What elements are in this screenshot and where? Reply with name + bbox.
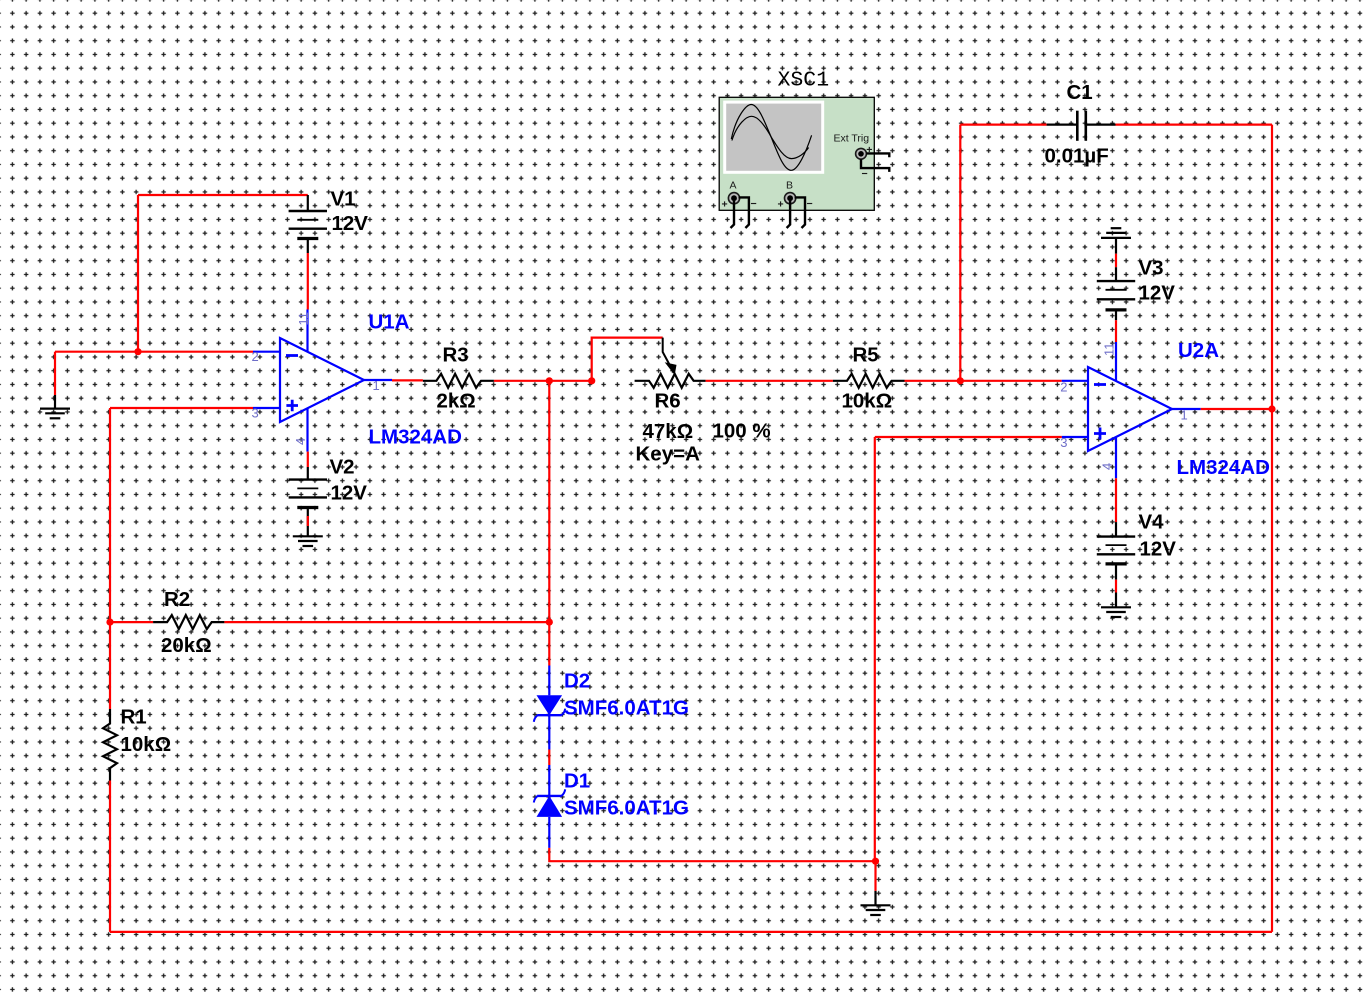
potentiometer R6 wiper arm: [663, 338, 671, 367]
wire right rail vertical: [1271, 125, 1273, 932]
svg-text:12V: 12V: [1139, 282, 1176, 305]
svg-text:+: +: [722, 199, 728, 211]
wire C1 to right rail: [1116, 123, 1273, 125]
svg-text:R6: R6: [655, 390, 681, 413]
svg-text:SMF6.0AT1G: SMF6.0AT1G: [564, 797, 689, 820]
resistor R1: [109, 622, 111, 709]
wire R3 to node: [494, 380, 592, 382]
svg-text:11: 11: [1101, 343, 1116, 357]
svg-text:B: B: [786, 180, 793, 192]
svg-text:12V: 12V: [331, 482, 368, 505]
svg-text:R5: R5: [853, 343, 879, 366]
wire D1 bottom: [549, 848, 875, 861]
svg-text:12V: 12V: [332, 212, 369, 235]
svg-text:11: 11: [296, 312, 311, 326]
battery V2: [289, 467, 327, 536]
junction output node: [1268, 405, 1275, 412]
wire R6 to R5: [706, 380, 833, 382]
wire U2A pin4 to V4: [1115, 478, 1117, 522]
svg-text:12V: 12V: [1140, 538, 1177, 561]
svg-text:+: +: [778, 199, 784, 211]
potentiometer R6 body: [635, 374, 706, 388]
svg-text:1: 1: [1181, 408, 1188, 423]
svg-text:2: 2: [252, 349, 259, 364]
wire pin3 node down to R1/R2: [109, 408, 111, 622]
svg-text:V4: V4: [1139, 511, 1165, 534]
junction C1 node: [957, 377, 964, 384]
svg-text:2kΩ: 2kΩ: [437, 390, 476, 413]
wire top to C1: [960, 123, 1046, 125]
wire ext trig minus stub: [861, 159, 889, 172]
svg-text:20kΩ: 20kΩ: [161, 634, 212, 657]
wire U1A pin4 to V2: [307, 452, 309, 467]
wire between diodes: [548, 750, 550, 766]
svg-text:A: A: [730, 180, 737, 192]
svg-text:4: 4: [1099, 463, 1114, 470]
svg-text:U1A: U1A: [369, 311, 410, 334]
wire V4- short net: [1115, 580, 1117, 593]
wire bottom rail: [110, 931, 1272, 933]
junction diode top node: [546, 619, 553, 626]
svg-text:−: −: [807, 198, 813, 210]
svg-text:SMF6.0AT1G: SMF6.0AT1G: [564, 697, 689, 720]
terminal Ext Trig: [856, 144, 873, 180]
svg-text:Key=A: Key=A: [636, 443, 701, 466]
wire U2A pin3: [875, 436, 1062, 438]
wire R1 bottom: [109, 781, 111, 932]
ground left: [40, 395, 70, 418]
battery V3: [1097, 267, 1135, 320]
ground below V4: [1101, 593, 1131, 618]
svg-text:LM324AD: LM324AD: [1177, 456, 1270, 479]
svg-text:10kΩ: 10kΩ: [842, 390, 893, 413]
wire wiper loop: [592, 338, 663, 381]
wire U1A output: [392, 379, 423, 381]
instrument XSC1: [719, 97, 874, 210]
wire ground to U1A pin2: [55, 351, 253, 353]
wire R2 left: [110, 621, 153, 623]
svg-text:R1: R1: [121, 706, 147, 729]
svg-text:Ext Trig: Ext Trig: [834, 133, 870, 145]
zener diode D2: [534, 666, 565, 750]
svg-text:R3: R3: [443, 343, 469, 366]
battery V4: [1097, 522, 1135, 580]
svg-text:C1: C1: [1067, 81, 1093, 104]
ground bottom right: [861, 891, 891, 915]
svg-text:2: 2: [1060, 379, 1067, 394]
svg-text:10kΩ: 10kΩ: [121, 733, 172, 756]
junction: [134, 348, 141, 355]
wire ground stem bottom: [874, 861, 876, 891]
svg-text:1: 1: [373, 378, 380, 393]
wire V3+ short net: [1115, 254, 1117, 268]
capacitor C1: [1047, 111, 1116, 141]
wire V2- short net: [307, 516, 309, 526]
svg-text:100 %: 100 %: [713, 420, 771, 443]
wire node A down to R2 net: [548, 381, 550, 622]
ground below V2: [293, 536, 323, 546]
wire V1- to pin11: [307, 253, 309, 310]
battery V1: [289, 195, 327, 253]
op-amp U1A: [253, 310, 392, 452]
svg-text:R2: R2: [164, 588, 190, 611]
terminal B: [778, 180, 813, 211]
svg-text:V3: V3: [1139, 257, 1164, 280]
zener diode D1: [534, 765, 565, 848]
svg-text:LM324AD: LM324AD: [369, 426, 462, 449]
wire R5 to U2A pin2: [905, 380, 1062, 382]
svg-text:U2A: U2A: [1178, 339, 1219, 362]
resistor R2: [153, 615, 224, 629]
junction R1/R2 node: [106, 619, 113, 626]
wire V1+ top: [138, 194, 308, 196]
junction bottom ground node: [872, 858, 879, 865]
svg-text:D1: D1: [564, 770, 590, 793]
svg-text:47kΩ: 47kΩ: [643, 420, 694, 443]
op-amp U2A: [1062, 342, 1201, 478]
resistor R5: [833, 374, 905, 388]
wire U2A output: [1201, 408, 1272, 410]
wire R2 to diode net: [224, 621, 549, 623]
wire V3- to U2A pin11: [1115, 320, 1117, 342]
wire diode net top: [548, 622, 550, 665]
junction wiper node: [588, 377, 595, 384]
wire V1+ down to inverting node: [137, 195, 139, 352]
svg-text:V1: V1: [331, 188, 356, 211]
wire ext trig plus stub: [866, 153, 889, 157]
svg-text:0.01µF: 0.01µF: [1045, 145, 1109, 168]
wire probe A minus: [739, 197, 749, 228]
resistor R3: [423, 374, 494, 388]
wire probe B minus: [795, 197, 805, 228]
wire C1 node up: [959, 125, 961, 381]
wire U1A pin3 left: [110, 407, 253, 409]
ground above V3 (inverted): [1101, 228, 1131, 254]
svg-text:V2: V2: [330, 456, 355, 479]
svg-text:D2: D2: [564, 670, 590, 693]
svg-text:XSC1: XSC1: [778, 69, 830, 93]
wire ground stem left: [54, 352, 56, 395]
svg-text:−: −: [862, 168, 868, 180]
wire probe A plus: [731, 200, 735, 228]
junction node A: [546, 377, 553, 384]
wire pin3 node down: [874, 437, 876, 861]
terminal A: [722, 180, 757, 211]
svg-text:−: −: [751, 198, 757, 210]
wire probe B plus: [787, 200, 791, 228]
svg-text:4: 4: [293, 438, 308, 445]
